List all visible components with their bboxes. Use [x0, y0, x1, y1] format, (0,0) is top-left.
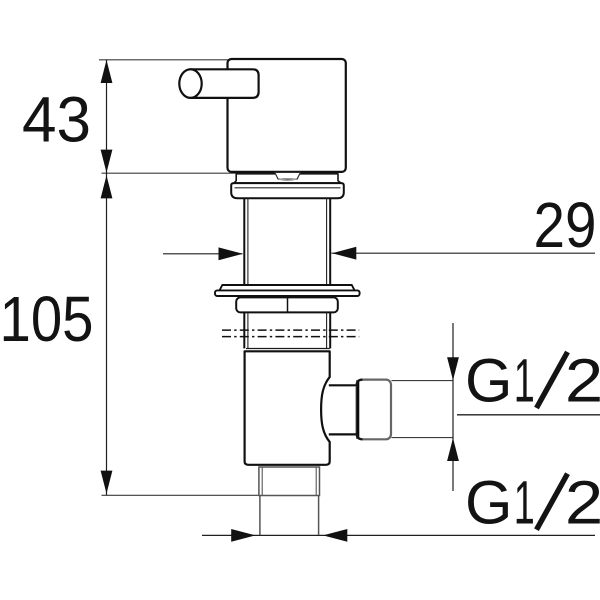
- svg-text:2: 2: [565, 346, 600, 414]
- outlet nipple thick left edge: [356, 380, 359, 439]
- wire: left vertical dimension line: [106, 60, 108, 496]
- outlet nipple corner accent top-left: [357, 380, 363, 386]
- hex nut: [236, 297, 338, 312]
- valve body block: [228, 59, 346, 172]
- wire: bottom G1/2 dimension line: [202, 534, 595, 536]
- centerline dash-dot lower: [222, 336, 359, 338]
- node: arrow up at nipple bottom: [447, 438, 459, 461]
- flange collar: [234, 174, 341, 183]
- svg-text:1: 1: [514, 468, 535, 537]
- lower column outer right: [329, 312, 331, 348]
- upper column outer left: [243, 198, 245, 285]
- wire: side outlet extension bottom: [392, 437, 454, 439]
- wire: 29 dimension right segment: [332, 252, 596, 254]
- lower column inner right: [326, 312, 328, 348]
- upper column outer right: [329, 198, 331, 285]
- outlet nipple corner accent bottom-left: [357, 433, 363, 439]
- wire: extension line bottom (105 lower): [102, 494, 260, 496]
- node: arrow down at 105 bottom: [101, 471, 113, 494]
- wire: side G1/2 vertical dimension line: [452, 323, 454, 491]
- wire: side G1/2 underline: [457, 414, 600, 416]
- bottom pipe left wall: [259, 496, 261, 536]
- escutcheon band upper: [220, 285, 355, 290]
- svg-text:43: 43: [22, 84, 91, 156]
- bottom pipe threaded section: [259, 467, 320, 496]
- node: arrow left at pipe right: [323, 529, 347, 542]
- outlet nipple: [357, 380, 391, 440]
- escutcheon band lower: [215, 290, 360, 296]
- lower column inner left: [247, 312, 249, 348]
- joint line upper: [246, 348, 330, 350]
- lower valve body with outlet ball bulge: [245, 351, 330, 465]
- outlet neck bottom edge: [329, 433, 358, 435]
- label G1/2 side: [465, 346, 600, 415]
- centerline dash-dot upper: [222, 329, 359, 331]
- upper column inner left: [247, 198, 249, 285]
- svg-text:G: G: [465, 468, 512, 536]
- lower column outer left: [243, 312, 245, 348]
- handle shaft: [191, 69, 259, 98]
- hex nut facet line: [287, 297, 289, 312]
- svg-text:29: 29: [534, 189, 597, 261]
- node: arrow left at column right: [332, 247, 356, 260]
- wire: side outlet extension top: [392, 380, 454, 382]
- wire: extension line top (43 upper): [99, 59, 229, 61]
- svg-text:2: 2: [565, 468, 600, 536]
- bottom pipe thread inner right: [315, 467, 317, 496]
- node: arrow up at 105 top: [101, 175, 113, 198]
- node: arrow right at pipe left: [231, 529, 255, 542]
- label G1/2 bottom: [465, 468, 600, 537]
- outlet neck top edge: [329, 384, 358, 386]
- handle knob end ellipse: [179, 69, 201, 98]
- bottom pipe thread inner left: [261, 467, 263, 496]
- node: arrow up at 43 top: [101, 60, 113, 83]
- node: arrow down at 43 bottom: [101, 150, 113, 173]
- flange dome inner edge: [235, 187, 341, 189]
- cartridge tab: [275, 172, 301, 179]
- node: arrow right at column left: [219, 247, 243, 260]
- wire: extension line mid (43/105 boundary): [102, 172, 238, 174]
- bottom pipe right wall: [318, 496, 320, 536]
- wire: 29 dimension left segment: [163, 253, 243, 255]
- svg-text:1: 1: [514, 346, 535, 415]
- flange dome: [231, 183, 344, 198]
- node: arrow down at nipple top: [447, 357, 459, 380]
- upper column inner right: [326, 198, 328, 285]
- svg-text:G: G: [465, 347, 512, 415]
- cartridge tab shading: [279, 179, 297, 180]
- svg-text:105: 105: [0, 283, 94, 355]
